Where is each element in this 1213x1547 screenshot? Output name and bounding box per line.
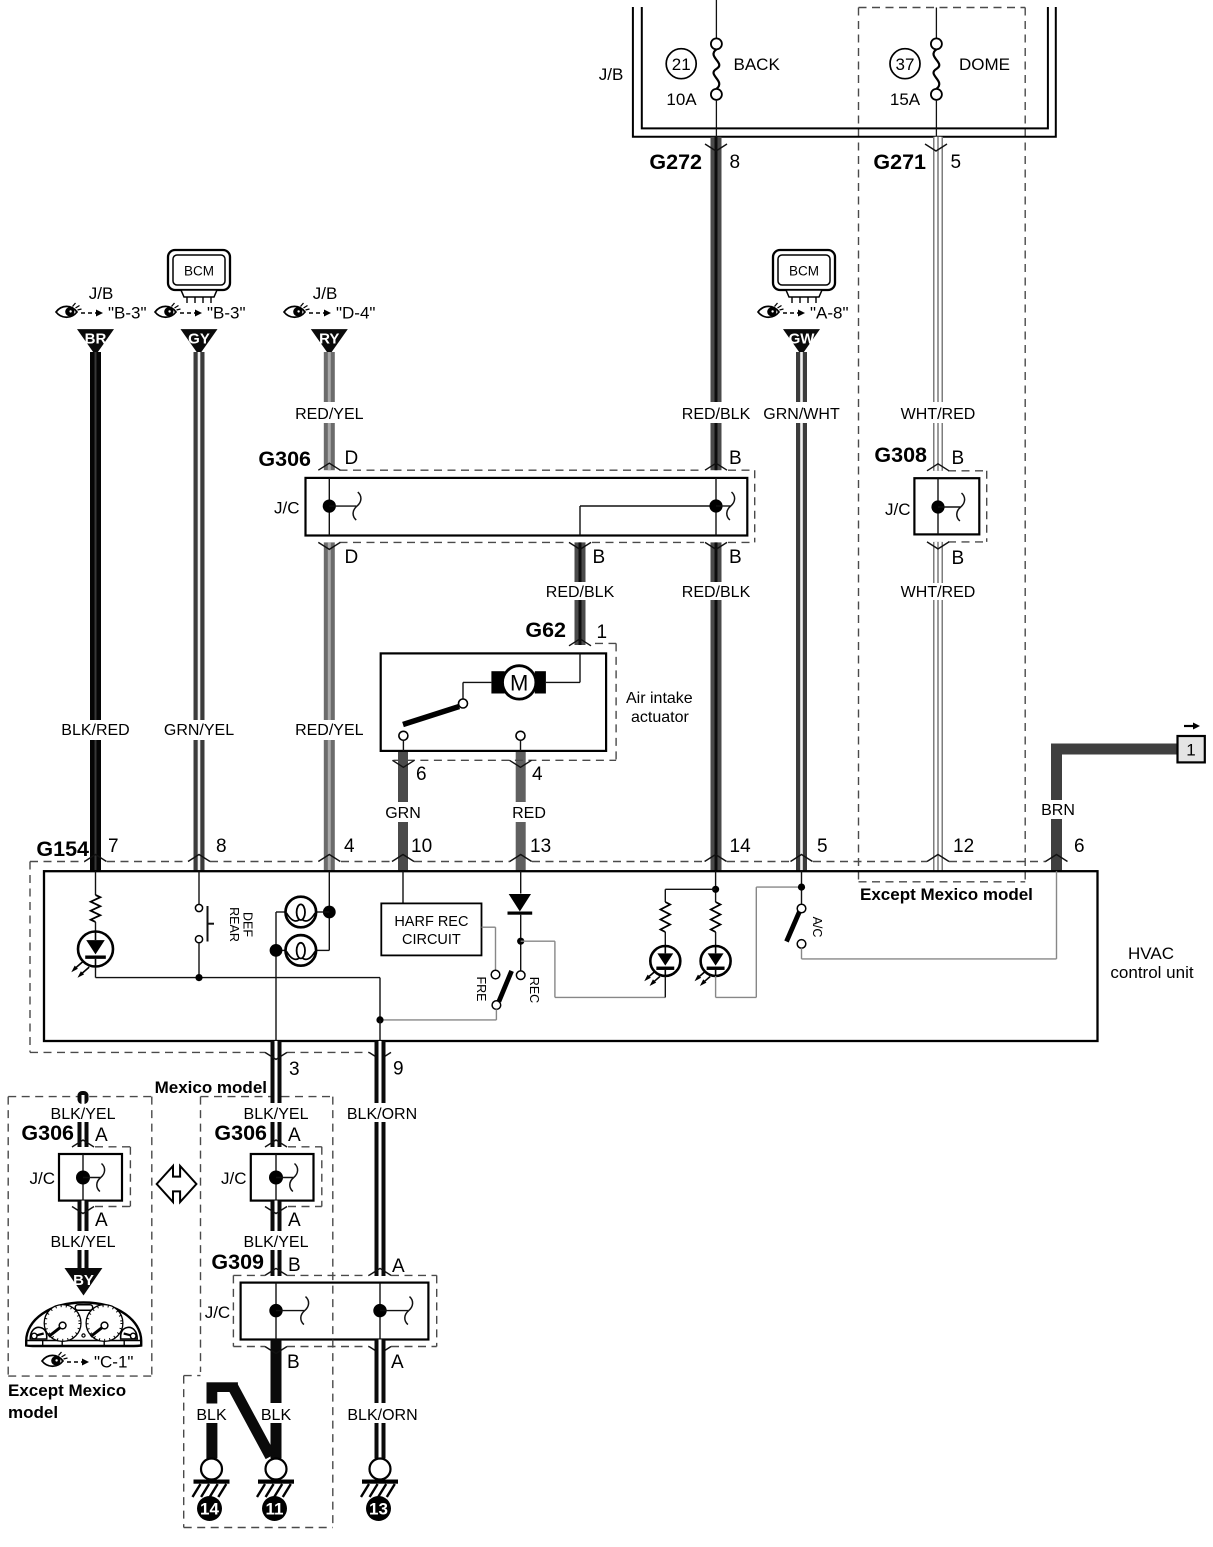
wire RED/YEL from RY to J/C G306 xyxy=(324,352,335,402)
wire RED/BLK from G306 B to HVAC pin 14 xyxy=(711,542,722,582)
svg-text:10: 10 xyxy=(411,836,432,857)
pin A top (G306 left) xyxy=(72,1125,108,1147)
ground 11 xyxy=(266,1459,287,1480)
wire RED/BLK from fuse 21 (G272 pin 8) to J/C G306 xyxy=(711,137,722,402)
svg-text:BCM: BCM xyxy=(184,264,214,279)
svg-text:6: 6 xyxy=(1074,836,1085,857)
module BCM (above GW) xyxy=(773,250,835,303)
lamp bulb 1 (illumination) xyxy=(276,897,329,928)
svg-text:"D-4": "D-4" xyxy=(336,304,375,323)
junction connector G306 (box) xyxy=(306,478,748,536)
pin B top (G309) xyxy=(265,1255,301,1276)
HVAC control unit box xyxy=(44,871,1098,1041)
svg-text:G272: G272 xyxy=(649,150,702,174)
svg-text:BLK: BLK xyxy=(196,1407,227,1424)
ground 13 xyxy=(370,1459,391,1480)
svg-text:BRN: BRN xyxy=(1041,802,1075,819)
svg-text:RED/YEL: RED/YEL xyxy=(295,722,364,739)
svg-text:A: A xyxy=(95,1210,108,1231)
junction dot pin8/pin7 chain xyxy=(195,974,202,981)
REAR DEF switch lead pin 8 xyxy=(198,871,200,904)
svg-text:12: 12 xyxy=(953,836,974,857)
pin A bottom (G309) xyxy=(369,1347,404,1374)
G306 left junction dot with hook xyxy=(76,1164,105,1192)
pin A bottom (G306 left) xyxy=(72,1207,108,1232)
svg-text:B: B xyxy=(952,448,965,469)
ground 11 number xyxy=(262,1496,287,1521)
pin B bottom (G306) xyxy=(705,542,742,568)
pin 6 (G62) xyxy=(392,760,426,785)
svg-text:9: 9 xyxy=(393,1059,404,1080)
svg-text:BY: BY xyxy=(73,1272,94,1289)
switch terminal pin 4 (G62) xyxy=(516,731,525,740)
eye reference to B-3 (BR) xyxy=(56,303,103,317)
svg-text:B: B xyxy=(288,1255,301,1276)
svg-text:G271: G271 xyxy=(873,150,926,174)
junction connector G306 Mexico (box) xyxy=(251,1154,314,1201)
wire pin 9 node to HVAC bottom xyxy=(379,1020,381,1041)
diode lead pin 13 xyxy=(520,871,522,893)
svg-text:J/C: J/C xyxy=(30,1169,56,1188)
FRE/REC common contact xyxy=(492,1001,501,1010)
svg-text:FRE: FRE xyxy=(474,977,488,1002)
wire BLK jumper to ground 14 (elbow) xyxy=(207,1382,271,1456)
svg-text:WHT/RED: WHT/RED xyxy=(901,584,976,601)
G306 internal wire D xyxy=(328,478,330,536)
svg-text:GRN/YEL: GRN/YEL xyxy=(164,722,234,739)
wire WHT/RED from fuse 37 (G271 pin 5) to J/C G308 xyxy=(933,137,943,402)
svg-text:HVAC: HVAC xyxy=(1128,944,1174,963)
lamp bulb 2 (illumination) xyxy=(276,935,329,966)
svg-text:REAR: REAR xyxy=(227,907,241,942)
diode (pin 13) xyxy=(508,894,533,971)
LED illumination (pin 7) xyxy=(78,932,113,967)
equivalence arrow (Mexico vs Except Mexico) xyxy=(157,1166,197,1202)
pin B bottom (G308) xyxy=(927,542,964,569)
label REAR DEF (rotated) xyxy=(227,907,255,942)
svg-text:13: 13 xyxy=(369,1500,388,1519)
G62 terminal leads xyxy=(403,740,520,751)
triangle connector GW xyxy=(783,329,820,355)
pin D top (G306) xyxy=(318,448,358,470)
svg-text:"C-1": "C-1" xyxy=(94,1353,133,1372)
LED pair lead pin 14 xyxy=(715,871,717,902)
svg-text:"B-3": "B-3" xyxy=(207,304,246,323)
pin 4 (G154) xyxy=(318,836,355,862)
G306 internal link from B junction to pin B2 xyxy=(580,506,716,536)
label Air intake actuator xyxy=(626,690,693,726)
switch lever (G62) xyxy=(403,707,459,725)
G309 junction dot B with hook xyxy=(269,1297,308,1325)
svg-text:Except Mexico model: Except Mexico model xyxy=(860,885,1033,904)
motor M (G62) xyxy=(491,666,545,699)
A/C switch contacts xyxy=(797,904,806,948)
LED 1 (A/C indicator) xyxy=(650,946,680,976)
svg-text:RED/YEL: RED/YEL xyxy=(295,406,364,423)
eye reference to B-3 (GY) xyxy=(155,303,202,317)
svg-text:BLK/ORN: BLK/ORN xyxy=(347,1407,417,1424)
svg-text:J/B: J/B xyxy=(313,284,338,303)
svg-text:A/C: A/C xyxy=(810,917,824,938)
wire from LED to REAR DEF junction xyxy=(96,967,381,978)
wire GRN/WHT from GW to HVAC pin 5 xyxy=(796,352,807,402)
svg-text:J/B: J/B xyxy=(599,65,624,84)
triangle connector RY xyxy=(311,329,348,355)
svg-text:A: A xyxy=(288,1210,301,1231)
svg-text:J/C: J/C xyxy=(221,1169,247,1188)
svg-text:A: A xyxy=(95,1125,108,1146)
wire from REAR DEF to junction xyxy=(198,943,200,978)
wire RED from G62 pin 4 to HVAC pin 13 xyxy=(516,751,526,802)
svg-text:5: 5 xyxy=(951,152,962,173)
svg-text:BCM: BCM xyxy=(789,264,819,279)
wire BLK/YEL stub (Except Mexico) xyxy=(78,1091,89,1104)
switch terminal pin 6 (G62) xyxy=(399,731,408,740)
svg-text:A: A xyxy=(392,1256,405,1277)
pin B top (G308) xyxy=(927,448,964,471)
svg-text:D: D xyxy=(345,547,359,568)
G309 internal wire A xyxy=(379,1283,381,1340)
G309 internal wire B xyxy=(275,1283,277,1340)
connector G272 pin 8 xyxy=(649,144,740,174)
branch to LED 1 xyxy=(665,889,715,902)
svg-text:G62: G62 xyxy=(525,618,566,642)
svg-text:GRN: GRN xyxy=(385,805,421,822)
svg-text:RED/BLK: RED/BLK xyxy=(682,406,751,423)
wire BLK/YEL from G306 left to BY xyxy=(78,1201,89,1231)
svg-text:7: 7 xyxy=(108,836,119,857)
wire GRN from G62 pin 6 to HVAC pin 10 xyxy=(398,751,408,802)
pin A top (G309) xyxy=(369,1256,405,1277)
svg-text:control unit: control unit xyxy=(1110,963,1193,982)
pin 12 (G154) xyxy=(927,836,974,862)
svg-text:"A-8": "A-8" xyxy=(810,304,849,323)
svg-text:B: B xyxy=(287,1352,300,1373)
svg-text:8: 8 xyxy=(216,836,227,857)
actuator G62 (dashed connector outline) xyxy=(393,643,616,760)
wire BLK/ORN from G309 A to ground 13 xyxy=(375,1340,386,1404)
wire WHT/RED from G308 B to HVAC pin 12 xyxy=(933,542,943,583)
svg-text:REC: REC xyxy=(527,977,541,1003)
lamps circuit lead pin 4 xyxy=(328,871,330,950)
illumination lamp circuit lead pin 7 xyxy=(95,871,97,895)
junction dot REC feed xyxy=(517,938,524,945)
wire RED/BLK from G306 B2 to actuator G62 pin 1 xyxy=(575,542,586,582)
svg-text:15A: 15A xyxy=(890,90,921,109)
dashed box Mexico model xyxy=(201,1097,333,1372)
pin 8 (G154) xyxy=(188,836,227,862)
svg-text:B: B xyxy=(593,547,606,568)
G306 junction dot D with connector hook xyxy=(323,492,361,520)
A/C switch lever xyxy=(787,912,800,942)
pin A top (G306 Mexico) xyxy=(265,1125,301,1147)
svg-text:D: D xyxy=(345,448,359,469)
svg-text:Air intake: Air intake xyxy=(626,690,693,707)
pin 3 (G154) xyxy=(265,1052,300,1080)
svg-text:B: B xyxy=(729,547,742,568)
pin 10 (G154) xyxy=(392,836,432,862)
wire FRE/REC common to junction xyxy=(380,1009,496,1020)
wire RED/YEL from G306 D to HVAC pin 4 xyxy=(324,542,335,720)
svg-text:11: 11 xyxy=(266,1500,284,1519)
svg-text:10A: 10A xyxy=(666,90,697,109)
wire BRN elbow from off-page connector 1 to HVAC pin 6 xyxy=(1051,744,1178,872)
svg-text:actuator: actuator xyxy=(631,709,689,726)
actuator G62 (box) xyxy=(381,653,606,751)
svg-text:RED: RED xyxy=(512,805,546,822)
junction connector G308 (dashed connector outline) xyxy=(948,471,987,542)
svg-text:3: 3 xyxy=(289,1059,300,1080)
svg-text:HARF REC: HARF REC xyxy=(394,914,468,930)
dashed region Except Mexico model (DOME fuse / G271 / G308 / pin12 column) xyxy=(859,8,1026,882)
svg-text:G154: G154 xyxy=(36,837,89,861)
dashed box Mexico model (right edge) xyxy=(332,1097,334,1528)
svg-text:RED/BLK: RED/BLK xyxy=(546,584,615,601)
pin B2 bottom (G306) xyxy=(569,542,605,568)
svg-text:1: 1 xyxy=(597,622,608,643)
G306 internal wire B xyxy=(715,478,717,536)
junction dot pin 5 xyxy=(798,884,805,891)
svg-text:G306: G306 xyxy=(258,447,311,471)
eye reference to A-8 (GW) xyxy=(758,303,805,317)
junction connector G306 (dashed connector outline) xyxy=(340,470,755,542)
REAR DEF switch contacts xyxy=(195,904,214,942)
label HVAC control unit xyxy=(1110,944,1193,982)
svg-text:BLK: BLK xyxy=(261,1407,292,1424)
instrument cluster (combination meter) xyxy=(26,1303,141,1347)
pin 14 (G154) xyxy=(705,836,751,862)
ground 13 number xyxy=(366,1496,391,1521)
A/C switch lead pin 5 xyxy=(801,871,803,904)
FRE/REC switch lever xyxy=(499,971,512,1002)
resistor (LED 2) xyxy=(711,902,721,932)
svg-text:6: 6 xyxy=(416,764,427,785)
pin 5 (G154) xyxy=(791,836,828,862)
svg-text:CIRCUIT: CIRCUIT xyxy=(402,932,461,948)
resistor R (illumination) xyxy=(91,895,101,922)
svg-text:BLK/ORN: BLK/ORN xyxy=(347,1106,417,1123)
wire HARF REC to FRE contact xyxy=(482,927,496,970)
FRE contact xyxy=(491,970,500,979)
junction dot pin 9 node xyxy=(376,1016,383,1023)
G309 junction dot A with hook xyxy=(373,1297,412,1325)
svg-text:5: 5 xyxy=(817,836,828,857)
dashed box Except Mexico model (instrument cluster branch) xyxy=(8,1097,152,1377)
svg-text:WHT/RED: WHT/RED xyxy=(901,406,976,423)
junction dot pin 14 xyxy=(712,886,719,893)
svg-text:A: A xyxy=(288,1125,301,1146)
G62 internal wire pin1 to motor xyxy=(546,653,580,682)
wire BLK/ORN from HVAC pin 9 to G309 xyxy=(375,1041,386,1103)
svg-text:8: 8 xyxy=(730,152,741,173)
svg-text:model: model xyxy=(8,1403,58,1422)
module BCM (above GY) xyxy=(168,250,230,303)
svg-text:DOME: DOME xyxy=(959,55,1010,74)
pin D bottom (G306) xyxy=(318,542,358,568)
svg-text:G309: G309 xyxy=(211,1250,264,1274)
wire BLK from G309 B to ground 11 xyxy=(271,1340,282,1404)
REC contact xyxy=(516,971,525,980)
wire LED 2 return to pin 5 node xyxy=(716,887,802,997)
svg-text:GW: GW xyxy=(789,331,816,348)
dashed box grounds (Mexico) xyxy=(184,1376,333,1528)
pin 1 (G62) xyxy=(569,622,607,646)
svg-text:1: 1 xyxy=(1186,741,1195,760)
fuse 37 DOME 15A xyxy=(890,8,1010,138)
G306 junction dot B with connector hook xyxy=(709,492,734,520)
svg-text:G308: G308 xyxy=(874,443,927,467)
svg-text:BR: BR xyxy=(85,331,107,348)
LED 2 (A/C indicator) xyxy=(701,946,731,976)
pin 13 (G154) xyxy=(510,836,551,862)
svg-text:G306: G306 xyxy=(21,1121,74,1145)
pin 6 (G154) xyxy=(1046,836,1085,862)
wire lamp row junction down to pin 9 node xyxy=(379,978,381,1020)
svg-text:RY: RY xyxy=(319,331,339,348)
svg-text:G306: G306 xyxy=(214,1121,267,1145)
triangle connector BY xyxy=(65,1268,103,1296)
pin 4 (G62) xyxy=(510,760,544,785)
svg-text:BLK/YEL: BLK/YEL xyxy=(51,1234,116,1251)
svg-text:4: 4 xyxy=(344,836,355,857)
wire BLK/RED from BR to HVAC pin 7 xyxy=(90,352,101,720)
eye reference to C-1 (cluster) xyxy=(42,1352,89,1366)
off-page connector 1 xyxy=(1178,723,1205,763)
HARF REC CIRCUIT box xyxy=(381,903,481,955)
svg-text:J/C: J/C xyxy=(205,1303,231,1322)
wire BLK/YEL from G306 Mexico to G309 xyxy=(271,1201,282,1231)
connector G271 pin 5 xyxy=(873,144,961,174)
svg-text:GRN/WHT: GRN/WHT xyxy=(763,406,840,423)
pin 7 (G154) xyxy=(85,836,119,862)
junction block J/B (outer border) xyxy=(633,7,1056,137)
wire GRN/YEL from GY to HVAC pin 8 xyxy=(194,352,205,720)
svg-text:14: 14 xyxy=(200,1500,219,1519)
G306 left internal wire xyxy=(82,1154,84,1201)
svg-text:BLK/RED: BLK/RED xyxy=(61,722,129,739)
svg-text:Except Mexico: Except Mexico xyxy=(8,1381,126,1400)
wire LED 1 to REC feed xyxy=(664,976,666,997)
fuse 21 BACK 10A xyxy=(666,0,780,138)
eye reference to D-4 (RY) xyxy=(284,303,331,317)
junction dot lamps xyxy=(323,906,336,919)
junction connector G309 (dashed outline) xyxy=(233,1275,436,1346)
junction block J/B (inner border) xyxy=(642,7,1048,128)
svg-text:M: M xyxy=(510,671,528,696)
junction dot lamp 2 left xyxy=(270,944,283,957)
svg-text:DEF: DEF xyxy=(241,912,255,937)
G308 internal wire xyxy=(937,478,939,534)
svg-text:14: 14 xyxy=(730,836,752,857)
switch pivot (G62) xyxy=(459,699,468,708)
svg-text:J/B: J/B xyxy=(89,284,114,303)
G308 junction dot with connector hook xyxy=(931,493,964,521)
svg-text:BLK/YEL: BLK/YEL xyxy=(244,1234,309,1251)
junction connector G306 left (box) xyxy=(59,1154,122,1201)
junction connector G308 (box) xyxy=(914,478,979,534)
wire A/C common to pin 6 xyxy=(802,871,1057,959)
svg-text:A: A xyxy=(391,1352,404,1373)
svg-text:37: 37 xyxy=(896,55,915,74)
wire lamps common to pin 3 xyxy=(275,912,277,1041)
resistor (LED 1) xyxy=(661,902,671,932)
svg-text:BACK: BACK xyxy=(734,55,781,74)
svg-text:"B-3": "B-3" xyxy=(108,304,147,323)
HARF REC circuit lead pin 10 xyxy=(402,871,404,903)
wire BLK/YEL into G306 left xyxy=(78,1122,89,1147)
svg-text:J/C: J/C xyxy=(274,499,300,518)
wire BLK/YEL from HVAC pin 3 xyxy=(271,1041,282,1103)
ground 14 xyxy=(201,1459,222,1480)
pin 9 (G154) xyxy=(369,1052,404,1079)
wire BLK to ground 14 xyxy=(206,1423,217,1459)
pin B bottom (G309) xyxy=(265,1347,300,1374)
svg-text:RED/BLK: RED/BLK xyxy=(682,584,751,601)
junction connector G306 Mexico (dashed outline) xyxy=(288,1147,322,1207)
triangle connector BR xyxy=(77,329,114,355)
label Except Mexico / model (bottom left) xyxy=(8,1381,126,1422)
svg-text:Mexico model: Mexico model xyxy=(155,1078,267,1097)
svg-text:B: B xyxy=(952,548,965,569)
svg-text:4: 4 xyxy=(532,764,543,785)
svg-text:13: 13 xyxy=(530,836,551,857)
svg-text:GY: GY xyxy=(188,331,210,348)
connector G154 (dashed boundary) xyxy=(30,862,1046,1053)
pin A bottom (G306 Mexico) xyxy=(265,1207,301,1232)
svg-text:J/C: J/C xyxy=(885,500,911,519)
pin B top (G306) xyxy=(705,448,742,470)
G62 internal wire motor to switch pivot xyxy=(463,682,491,699)
svg-text:21: 21 xyxy=(672,55,691,74)
junction connector G309 (box) xyxy=(241,1283,429,1340)
G306 Mexico internal wire xyxy=(275,1154,277,1201)
svg-text:B: B xyxy=(729,448,742,469)
triangle connector GY xyxy=(181,329,218,355)
G306 Mexico junction dot with hook xyxy=(269,1164,298,1192)
wire REC feed to LED1 return xyxy=(521,941,666,997)
ground 14 number xyxy=(197,1496,222,1521)
junction connector G306 left (dashed outline) xyxy=(95,1147,130,1207)
